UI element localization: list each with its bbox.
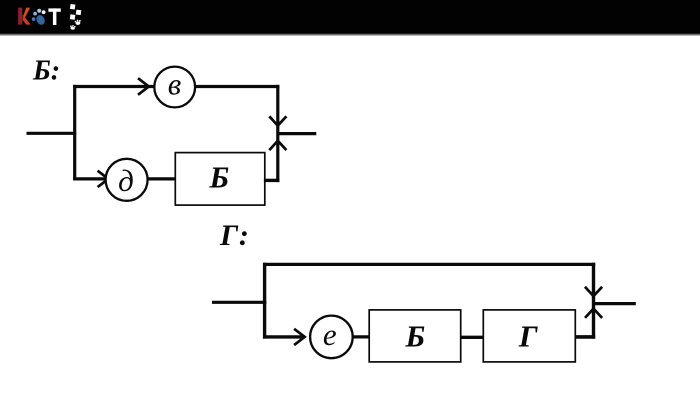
logo mini paw 2: [70, 25, 76, 30]
block Б upper: [175, 153, 264, 206]
logo paw toe 1: [33, 12, 37, 16]
svg-text:Б: Б: [208, 159, 229, 194]
arrow up at upper junction: [269, 141, 286, 150]
svg-text:в: в: [168, 66, 181, 101]
wire left vertical lower: [263, 263, 266, 339]
wire circle е to block Б lower: [352, 335, 371, 338]
wire circle д to block Б: [147, 177, 177, 180]
arrow down at lower junction: [585, 287, 602, 296]
block Г lower: [483, 310, 575, 362]
svg-text:Г: Г: [518, 319, 538, 354]
wire block Г to right vertical: [575, 335, 596, 339]
wire exit upper: [278, 132, 317, 135]
logo pixel square 3: [70, 14, 76, 20]
logo paw toe 2: [37, 9, 41, 13]
svg-text:д: д: [118, 163, 134, 198]
circle д: [106, 159, 148, 201]
arrow into circle е: [294, 329, 305, 345]
logo pixel square 1: [70, 4, 76, 10]
logo letter K stem: [18, 8, 22, 25]
svg-text:Б: Б: [404, 319, 425, 354]
svg-text:Б:: Б:: [32, 56, 60, 87]
svg-text:Г:: Г:: [219, 219, 249, 252]
wire right vertical upper: [276, 85, 279, 182]
logo mini paw 1: [74, 19, 81, 25]
wire top branch right: [195, 85, 280, 88]
logo letter K upper arm: [23, 8, 30, 22]
circle в: [154, 67, 195, 108]
wire entry lower: [212, 301, 266, 304]
logo paw main pad: [35, 14, 47, 26]
wire block Б to right vertical: [264, 179, 280, 182]
wire bottom branch lower left: [263, 335, 303, 338]
wire left vertical upper: [73, 85, 76, 181]
svg-text:е: е: [323, 317, 337, 352]
logo letter K lower arm: [23, 15, 31, 25]
wire right vertical lower: [592, 263, 595, 339]
wire top branch left: [73, 85, 155, 88]
circle е: [310, 316, 353, 359]
logo paw toe 3: [42, 10, 46, 14]
header bar: [0, 0, 700, 34]
wire bottom branch left: [73, 177, 107, 180]
block Б lower: [369, 310, 461, 362]
logo pixel square 2: [76, 10, 82, 16]
arrow into circle в: [138, 78, 149, 95]
arrow into circle д: [98, 171, 109, 187]
arrow down at upper junction: [269, 116, 286, 125]
wire between blocks: [460, 336, 484, 339]
arrow up at lower junction: [585, 309, 602, 318]
wire exit lower: [594, 302, 636, 305]
wire top bypass: [263, 263, 595, 266]
logo paw toe 4: [32, 17, 36, 21]
logo letter T: [48, 8, 60, 25]
wire entry upper: [27, 132, 77, 135]
